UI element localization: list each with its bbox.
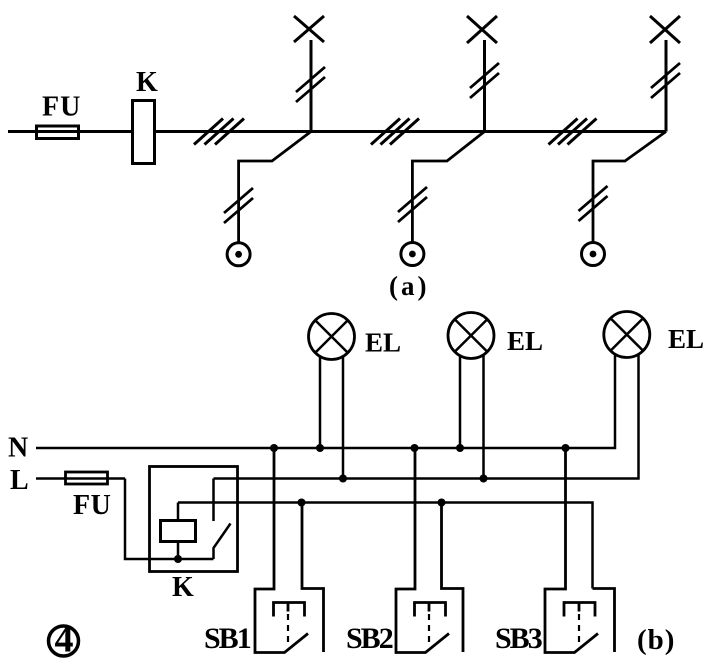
wire lamp feed line from contact (214, 355, 639, 479)
button SB3 right branch side (593, 589, 615, 653)
svg-text:SB2: SB2 (346, 622, 393, 655)
svg-text:SB3: SB3 (495, 622, 542, 655)
conductor-count hatch (3 strokes) on feeder between node 2 and 3 (549, 119, 597, 145)
svg-text:K: K (172, 572, 194, 603)
svg-text:EL: EL (507, 326, 543, 356)
wire drop branch 3 (593, 132, 666, 243)
svg-text:N: N (8, 433, 28, 464)
switch K (a) (133, 101, 155, 164)
lamp EL 2 (448, 313, 494, 359)
lamp point symbol X 3 (650, 16, 680, 43)
button SB2 plunger dashed (428, 614, 430, 647)
svg-text:EL: EL (365, 328, 401, 358)
lamp EL 3 (604, 312, 650, 358)
button SB3 plunger dashed (578, 614, 580, 647)
hatch (2 strokes) on riser 2 (470, 63, 499, 98)
wire drop branch 2 (412, 132, 484, 243)
relay coil K (161, 521, 196, 542)
wire main feeder line (8, 130, 666, 133)
wire riser 3 (665, 40, 668, 132)
svg-text:FU: FU (42, 92, 81, 123)
svg-text:(a): (a) (389, 271, 429, 301)
figure number 4 circled (49, 626, 79, 656)
junction dots on N line (270, 444, 570, 452)
button SB3 cap (564, 603, 595, 617)
hatch (2 strokes) on riser 1 (296, 67, 325, 102)
socket symbol 1 (227, 243, 250, 266)
wire control line from coil to buttons (178, 503, 593, 589)
hatch (2 strokes) on drop 1 (224, 188, 253, 223)
button SB2 right branch from control line (442, 503, 464, 653)
button SB2 left branch from N (396, 448, 449, 653)
socket symbol 2 (401, 243, 424, 266)
junction coil bottom (174, 555, 182, 563)
lamp point symbol X 1 (294, 16, 324, 42)
svg-text:EL: EL (668, 324, 704, 354)
conductor-count hatch (3 strokes) on feeder after K (194, 119, 244, 145)
lamp EL 1 (309, 314, 355, 360)
junction dots on control line (298, 499, 446, 507)
svg-text:L: L (10, 465, 29, 496)
button SB1 cap (274, 603, 305, 617)
wire L line (36, 477, 125, 480)
svg-text:SB1: SB1 (204, 622, 251, 655)
svg-text:K: K (136, 67, 158, 98)
wire lamp1 left lead to N (319, 356, 322, 448)
hatch (2 strokes) on drop 2 (398, 187, 427, 222)
button SB2 cap (415, 603, 446, 617)
button SB1 plunger dashed (287, 614, 289, 647)
fuse FU (a) (37, 126, 79, 139)
button SB1 right branch from control line (302, 503, 324, 653)
button SB1 left branch from N (255, 448, 308, 653)
wire riser 1 (310, 40, 313, 132)
button SB3 left branch from N (545, 448, 598, 653)
wire lamp2 right lead to feed (482, 355, 485, 479)
wire lamp1 right lead to feed (342, 356, 345, 479)
relay K enclosure box (150, 467, 238, 572)
wire riser 2 (483, 40, 486, 132)
wire N line (36, 356, 615, 449)
wire L drop to relay bottom (125, 479, 214, 560)
wire coil bottom lead (177, 542, 180, 560)
contact K fixed terminal (212, 479, 215, 522)
hatch (2 strokes) on drop 3 (579, 186, 608, 221)
socket symbol 3 (582, 243, 605, 266)
junction dots on feed line (339, 475, 488, 483)
wire coil top lead (177, 503, 180, 521)
svg-text:4: 4 (55, 619, 74, 661)
hatch (2 strokes) on riser 3 (651, 63, 680, 98)
contact K blade (214, 524, 231, 560)
lamp point symbol X 2 (467, 16, 497, 43)
svg-text:FU: FU (73, 490, 111, 521)
fuse FU (b) (66, 472, 108, 484)
wire lamp2 left lead to N (459, 355, 462, 448)
conductor-count hatch (3 strokes) on feeder between node 1 and 2 (371, 119, 419, 145)
wire drop branch 1 (239, 132, 311, 243)
svg-text:(b): (b) (637, 624, 675, 656)
